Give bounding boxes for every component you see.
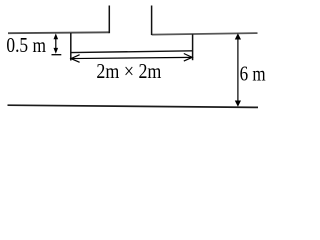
svg-text:2m × 2m: 2m × 2m — [96, 59, 161, 83]
svg-text:0.5 m: 0.5 m — [6, 33, 46, 57]
svg-text:6 m: 6 m — [240, 61, 266, 85]
